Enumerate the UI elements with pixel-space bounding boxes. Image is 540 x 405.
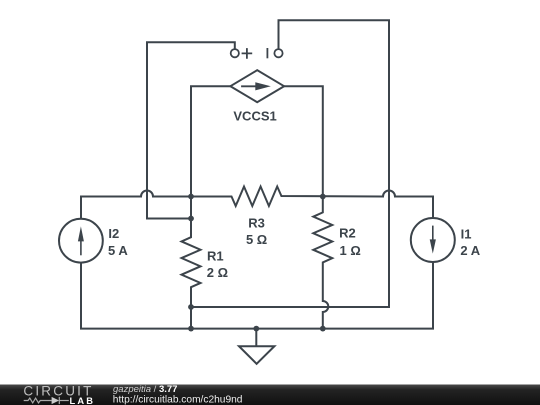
svg-text:I2: I2 [108, 226, 119, 241]
svg-text:R1: R1 [207, 248, 224, 263]
svg-text:LAB: LAB [70, 396, 96, 405]
svg-text:I1: I1 [461, 226, 472, 241]
svg-text:5 A: 5 A [108, 243, 128, 258]
svg-text:VCCS1: VCCS1 [233, 109, 276, 124]
svg-text:1 Ω: 1 Ω [340, 243, 361, 258]
svg-text:2 A: 2 A [460, 243, 480, 258]
svg-text:R3: R3 [248, 215, 265, 230]
svg-text:gazpeitia / 3.77: gazpeitia / 3.77 [113, 384, 177, 395]
svg-text:http://circuitlab.com/c2hu9nd: http://circuitlab.com/c2hu9nd [113, 395, 243, 405]
svg-text:R2: R2 [339, 226, 356, 241]
svg-text:5 Ω: 5 Ω [246, 232, 267, 247]
svg-text:2 Ω: 2 Ω [207, 265, 228, 280]
